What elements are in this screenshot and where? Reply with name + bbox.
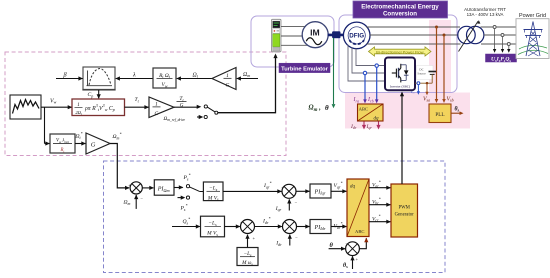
q-current summing junction [281, 184, 297, 205]
svg-text:Turbine Emulator: Turbine Emulator [281, 66, 328, 72]
svg-text:PWM: PWM [398, 206, 410, 211]
rotor wire phase a [356, 48, 385, 65]
rotor wire phase c [348, 45, 385, 81]
node grid measurement a [493, 26, 496, 29]
svg-text:−: − [345, 242, 348, 247]
svg-text:PIΩm: PIΩm [157, 186, 170, 192]
wire Om_ref input to mode switch [199, 115, 204, 119]
svg-text:ABC: ABC [359, 107, 368, 112]
wire junction to PI Idr [297, 226, 310, 228]
svg-text:Bi-directionnel Power Flow: Bi-directionnel Power Flow [376, 49, 423, 54]
gain block -Ls/MVs (power to current) [203, 182, 223, 201]
node Vsb tap [443, 34, 446, 37]
wire angle to dq-ABC block [359, 238, 366, 248]
svg-text:Ira: Ira [353, 97, 360, 103]
svg-text:13A - 400V 13 kVA: 13A - 400V 13 kVA [467, 12, 504, 17]
wire grid measurement c [508, 46, 510, 51]
svg-text:Power Grid: Power Grid [519, 13, 546, 19]
wire grid measurement a [494, 29, 496, 51]
wire theta-s output of PLL [451, 112, 461, 114]
wind speed profile source block [10, 95, 41, 119]
wire Om feedback arrow [135, 195, 137, 209]
svg-text:Ωm: Ωm [124, 200, 131, 206]
svg-text:λ: λ [132, 72, 136, 79]
wire Iqr* to current summing junction [223, 190, 281, 192]
optimal tip speed block Vw.lopt/Rt [50, 134, 75, 153]
node Vsa tap [435, 26, 438, 29]
turbine emulator hardware boundary box [251, 16, 334, 67]
PI d-current regulator block [310, 220, 331, 234]
svg-text:+: + [281, 185, 284, 190]
svg-text:IM: IM [310, 28, 320, 38]
svg-text:UsIsPsQs: UsIsPsQs [491, 56, 511, 62]
wire Qs* input [172, 226, 200, 228]
svg-text:G: G [91, 142, 96, 149]
wire DC measurement brown arrow [426, 85, 428, 93]
svg-text:PLL: PLL [435, 112, 444, 118]
svg-text:1: 1 [226, 73, 229, 79]
wire grid measurement b [502, 37, 504, 51]
PLL block [429, 104, 451, 123]
mode switch speed input node [204, 115, 207, 118]
shaft IM-DFIG [328, 34, 345, 37]
pink highlight band (rotor/stator measurement strip) [345, 93, 470, 129]
wire theta input [329, 248, 346, 250]
wire gain output to mode switch [174, 106, 198, 108]
grid wire phase a [481, 26, 517, 28]
gain block G (gearbox) [86, 133, 110, 154]
PWM generator block [391, 184, 418, 237]
wire Vsb measurement [443, 35, 445, 100]
wire junction to PI speed [142, 187, 153, 189]
induction motor IM [302, 22, 328, 48]
gain block 1/G (torque, points right) [149, 97, 174, 118]
wire VFD to IM phase c [281, 44, 308, 46]
mode switch torque input node [204, 105, 207, 108]
d-reference summing junction [240, 220, 256, 241]
wire Idr feedback arrow [289, 235, 291, 246]
dq to ABC transform block [347, 179, 369, 237]
transmission tower drawing [518, 22, 548, 57]
Ps switch upper node [186, 185, 189, 188]
wire PWM gate signals up to inverter [401, 93, 403, 184]
wire beta input [56, 78, 83, 80]
power grid box [516, 19, 549, 59]
IGBT symbol [392, 64, 401, 83]
wire switch to -Ls/MVs block [199, 191, 203, 193]
Cp curve look-up block [83, 67, 115, 90]
svg-text:Conversion: Conversion [383, 11, 417, 18]
svg-text:G: G [155, 111, 159, 117]
wire Vdc measurement blue arrow [417, 85, 419, 93]
mode switch arm [207, 107, 215, 112]
svg-text:dq: dq [350, 184, 356, 189]
stator wire phase c [367, 43, 461, 45]
svg-text:+: + [253, 236, 256, 241]
svg-text:1: 1 [155, 101, 158, 107]
generator DFIG [343, 22, 370, 49]
grid wire phase c [481, 43, 516, 45]
label UsIsPsQs [486, 54, 517, 62]
wire switch output to drive (VFD) [218, 55, 276, 113]
svg-text:−: − [140, 197, 143, 202]
svg-text:θs: θs [455, 106, 460, 112]
speed summing junction [128, 182, 143, 202]
svg-text:−: − [295, 235, 298, 240]
svg-text:Cp: Cp [88, 92, 94, 98]
svg-text:Irb: Irb [367, 97, 374, 103]
svg-text:Iqr: Iqr [275, 206, 282, 212]
wire Om into 1/G [237, 78, 258, 80]
svg-text:Ωm: Ωm [243, 72, 250, 78]
wire Idr down arrow [363, 122, 365, 128]
Ps switch arm [190, 187, 200, 191]
magnetizing compensation block -Ls/M.ws [237, 248, 258, 266]
node Vdc probe blue [417, 82, 420, 85]
tip speed ratio block Rt.Ot/Vw [153, 68, 176, 88]
svg-text:PIIdr: PIIdr [314, 225, 326, 231]
svg-text:+: + [282, 220, 285, 225]
aerodynamic torque formula block [72, 99, 125, 116]
node grid measurement b [501, 34, 504, 37]
svg-text:Source: Source [417, 71, 426, 75]
encoder measurement wire Om theta [333, 38, 335, 104]
stator wire phase b [370, 34, 459, 36]
wire Vw branch into lopt block [45, 143, 50, 145]
shaft coupling [332, 32, 340, 39]
wire Vcr* to PWM [369, 221, 390, 223]
svg-text:DFIG: DFIG [349, 33, 364, 40]
rotor angle summing junction [345, 242, 359, 262]
svg-text:Electromechanical Energy: Electromechanical Energy [361, 4, 439, 11]
wire Iqr down arrow [378, 122, 380, 128]
node grid measurement c [507, 43, 510, 46]
rotor-side control dashed boundary box [104, 161, 446, 273]
svg-text:Idr: Idr [350, 124, 357, 130]
wire Vsa measurement [436, 27, 438, 100]
title banner Electromechanical Energy Conversion [353, 1, 448, 18]
svg-text:dq: dq [374, 116, 380, 121]
svg-text:ABC: ABC [355, 229, 364, 234]
grid wire phase b [484, 34, 516, 36]
autotransformer TRT [458, 26, 475, 43]
svg-text:Iqr: Iqr [366, 124, 373, 130]
svg-text:Vsa: Vsa [423, 96, 430, 102]
node Vw branch junction [44, 107, 46, 143]
ABC to dq transform block [358, 104, 384, 121]
wire DC bus [415, 82, 432, 84]
variable frequency drive (VFD) [272, 19, 282, 52]
DC source [417, 66, 434, 80]
DC link capacitor [429, 71, 437, 73]
gain block -Ls/MVs (reactive power to current) [201, 216, 225, 237]
svg-text:−: − [295, 200, 298, 205]
anti-parallel diode [405, 65, 407, 71]
svg-text:V₃₄: V₃₄ [411, 90, 415, 94]
wire theta-s input arrow [352, 256, 354, 269]
wire Cp output down into torque formula [98, 90, 100, 98]
wire Vbr* to PWM [369, 204, 390, 206]
svg-text:Inverter (SBC): Inverter (SBC) [390, 85, 410, 89]
wire Iqr feedback arrow [288, 199, 290, 210]
wire VFD to IM phase b [281, 35, 302, 37]
pink highlight band (Vsa Vsb measurement corridor) [429, 20, 451, 93]
wire Vqr* into dq-ABC block [331, 190, 346, 192]
svg-text:PIIqr: PIIqr [314, 189, 326, 195]
wire compensation up into junction [247, 235, 249, 248]
wire junction to PI Iqr [296, 190, 309, 192]
d-current summing junction [282, 220, 298, 241]
rotor wire phase b [352, 47, 385, 73]
label Turbine Emulator [279, 63, 330, 72]
svg-text:G: G [226, 83, 230, 89]
svg-text:+: + [128, 183, 131, 188]
gain block 1/G (speed, points left) [212, 68, 236, 90]
PI q-current regulator block [310, 184, 331, 198]
svg-text:Idr: Idr [275, 240, 282, 246]
svg-text:θ: θ [325, 104, 329, 112]
turbine model dashed boundary box [5, 52, 286, 156]
Ps switch lower node [186, 196, 189, 199]
wire Vw to torque formula block [41, 106, 72, 108]
wire Ps* external input [178, 197, 183, 199]
wire to compensation summing junction [225, 226, 240, 228]
svg-text:+: + [240, 220, 243, 225]
wire PI out to Ps switch [174, 187, 183, 189]
svg-text:θs: θs [343, 263, 348, 269]
wire Ot from gain 1/G to tip-speed block [177, 78, 212, 80]
wire Var* to PWM [369, 187, 390, 189]
node Irb current probe [375, 64, 378, 67]
wire Idr* to current summing junction [255, 226, 282, 228]
mode switch output node [215, 111, 218, 114]
PI speed regulator block [154, 180, 174, 195]
wire Tt to gain 1/G [125, 106, 149, 108]
svg-text:Vsb: Vsb [447, 96, 454, 102]
wire lambda from tip-speed block to Cp block [116, 78, 153, 80]
node Ira current probe [363, 71, 366, 74]
wire VFD to IM phase a [281, 26, 305, 28]
wire Om* down to speed summing junction [110, 144, 129, 188]
svg-text:+: + [356, 256, 359, 261]
electromechanical conversion boundary box [339, 15, 457, 93]
svg-text:Ωt: Ωt [193, 72, 199, 78]
svg-text:Generator: Generator [395, 213, 415, 218]
node DC tap brown [426, 82, 429, 85]
wire Irb measurement [376, 67, 378, 99]
svg-text:Vw: Vw [50, 98, 57, 104]
stator wire phase a [366, 26, 460, 28]
wire Ot* to gain G [75, 143, 85, 145]
wire Ira measurement [364, 75, 366, 100]
rotor side inverter box [385, 58, 415, 91]
wire Vdr* into dq-ABC block [331, 226, 346, 228]
bidirectional power flow arrow [369, 47, 432, 56]
